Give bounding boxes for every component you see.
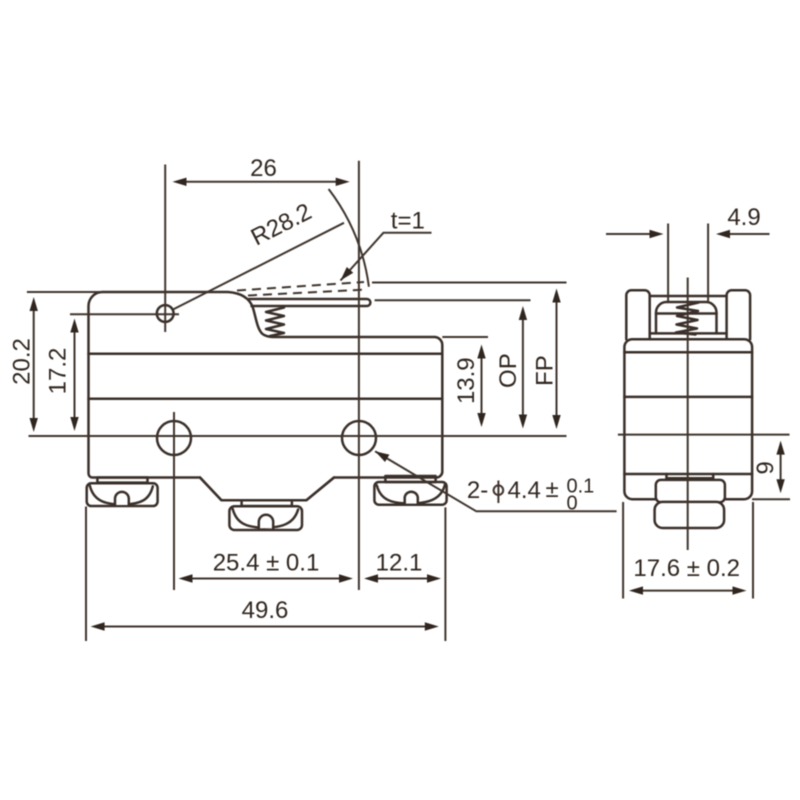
side view internal line 1 — [624, 351, 752, 354]
plunger inner line — [656, 312, 717, 315]
pivot vertical center/extension line — [164, 165, 166, 333]
13.9 top extension line — [442, 336, 488, 338]
middle terminal neck — [242, 500, 292, 506]
svg-text:2-: 2- — [467, 477, 488, 504]
side view internal line 3 — [624, 473, 752, 476]
side view center line — [687, 278, 689, 551]
crossbar between ears — [651, 295, 727, 298]
4.9 extension line right — [707, 224, 709, 302]
dimension 49.6 line — [102, 626, 427, 628]
right ear — [727, 290, 751, 339]
middle terminal screw head — [229, 506, 302, 530]
dimension 6 arrows — [780, 453, 782, 481]
side view spring zigzag — [676, 303, 699, 335]
dimension 13.9 arrows — [481, 357, 483, 414]
washer bottom line — [667, 477, 714, 480]
svg-text:13.9: 13.9 — [453, 357, 480, 404]
side view body outline — [624, 339, 752, 499]
svg-text:17.2: 17.2 — [45, 348, 72, 395]
front view spring zigzag — [266, 308, 284, 337]
pivot hole circle — [157, 305, 174, 322]
bottom extension line left (49.6) — [85, 507, 87, 642]
dimension FP arrows — [556, 300, 558, 417]
bottom V notch recess — [200, 478, 334, 501]
svg-text:49.6: 49.6 — [242, 597, 289, 624]
dimension 17.6 line — [640, 590, 735, 592]
lever dashed free position lower edge — [248, 290, 367, 296]
left hole vertical center line — [173, 412, 175, 590]
front view switch body outline — [89, 292, 443, 500]
svg-text:OP: OP — [495, 353, 522, 388]
t=1 leader with arrow — [341, 233, 432, 281]
FP level line — [372, 282, 567, 284]
phi symbol — [494, 485, 504, 495]
svg-text:26: 26 — [250, 155, 277, 182]
svg-text:FP: FP — [532, 355, 559, 386]
dimension 17.2 arrows — [74, 331, 76, 418]
plunger block with dome top — [656, 302, 717, 333]
dimension 25.4 line — [190, 578, 341, 580]
side view hole center line extension — [618, 434, 790, 436]
middle terminal notch — [259, 515, 273, 528]
dimension 20.2 arrows — [33, 310, 35, 419]
svg-text:0: 0 — [567, 492, 578, 514]
17.6 extension line left — [622, 502, 624, 599]
svg-text:t=1: t=1 — [391, 208, 425, 235]
bottom extension line right (49.6/12.1) — [444, 507, 446, 641]
left terminal neck — [97, 478, 147, 483]
right vertical extension line (26 dim through right hole) — [358, 161, 360, 590]
svg-text:25.4 ± 0.1: 25.4 ± 0.1 — [213, 550, 320, 577]
pivot horizontal center line / 17.2 extension — [70, 313, 179, 315]
hole horizontal center line (extends both sides) — [29, 435, 567, 437]
svg-text:17.6 ± 0.2: 17.6 ± 0.2 — [633, 555, 740, 582]
leader line R28.2 — [173, 223, 344, 310]
body internal line upper — [89, 353, 443, 356]
top edge extension line for 20.2 — [27, 291, 103, 293]
nut upper — [656, 480, 725, 502]
left terminal screw head — [87, 483, 158, 506]
right terminal notch — [405, 492, 418, 504]
side view bottom edge extension right — [752, 498, 790, 500]
17.6 extension line right — [752, 502, 754, 599]
dimension 4.9 arrows — [606, 233, 651, 235]
lever solid (operating position) — [249, 299, 370, 306]
svg-text:4.9: 4.9 — [727, 204, 760, 231]
svg-text:6: 6 — [751, 461, 778, 474]
recess shoulder line — [651, 332, 727, 335]
right terminal neck — [385, 476, 435, 482]
left terminal notch — [115, 492, 129, 505]
dimension 12.1 line — [376, 578, 429, 580]
svg-text:4.4: 4.4 — [508, 477, 541, 504]
right terminal dish arc — [377, 485, 445, 504]
nut lower — [655, 502, 725, 528]
right terminal screw head — [374, 482, 446, 505]
body internal line lower — [89, 398, 443, 401]
left ear — [626, 290, 649, 339]
4.9 extension line left — [667, 224, 669, 302]
dimension OP arrows — [522, 318, 524, 416]
mounting hole right — [342, 421, 376, 455]
svg-text:±: ± — [546, 476, 559, 503]
left terminal dish arc — [90, 486, 153, 505]
leader 2-phi4.4 with arrow — [375, 451, 616, 511]
svg-text:20.2: 20.2 — [9, 338, 36, 385]
dimension 26 line with arrows — [184, 181, 338, 183]
side view internal line 2 — [624, 396, 752, 399]
lever dashed free position upper edge — [237, 282, 364, 291]
svg-text:12.1: 12.1 — [376, 550, 423, 577]
washer ticks — [665, 474, 668, 478]
lever sweep arc R28.2 — [329, 189, 369, 287]
mounting hole left — [157, 421, 191, 455]
OP level line — [375, 299, 531, 301]
middle terminal dish arc — [233, 509, 299, 528]
